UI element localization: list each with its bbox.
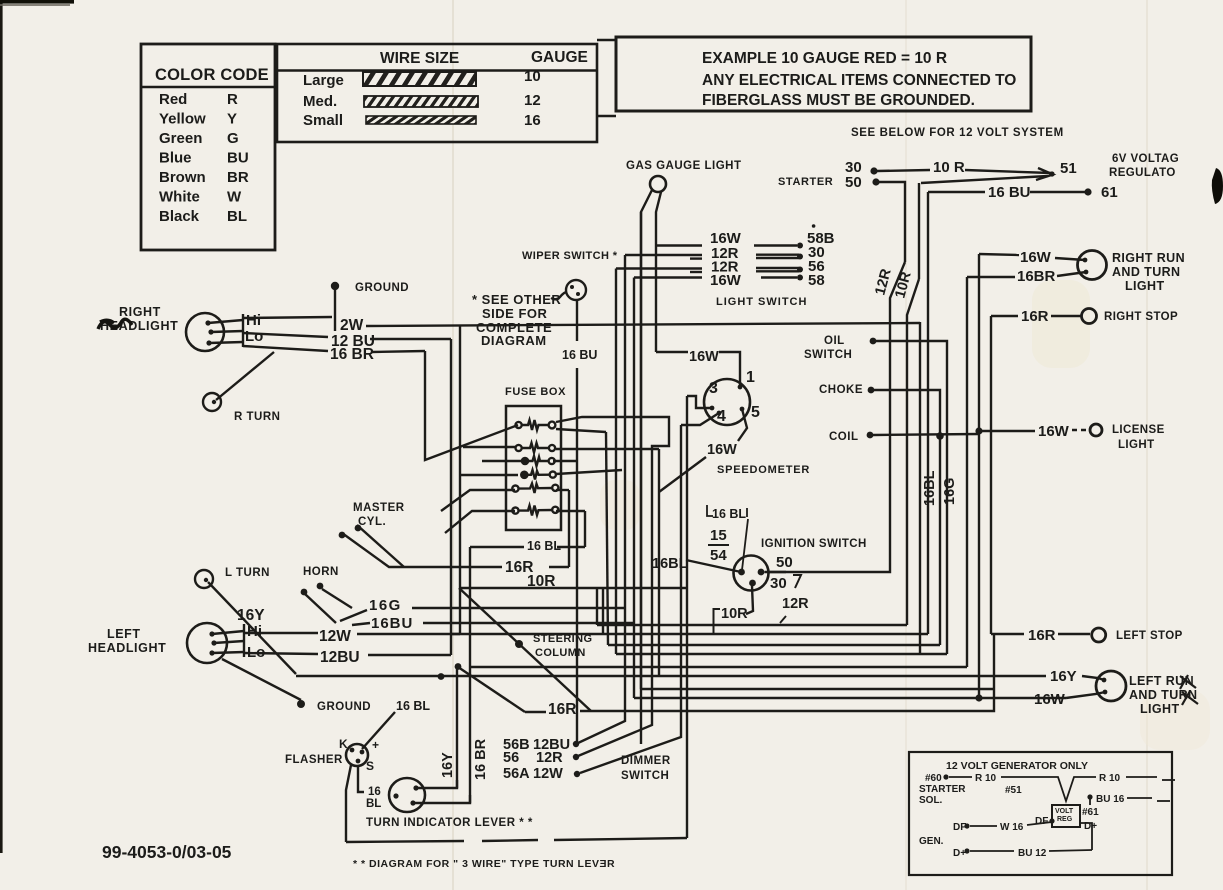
svg-text:BR: BR: [227, 169, 249, 186]
svg-text:SIDE FOR: SIDE FOR: [482, 306, 548, 321]
svg-text:10: 10: [524, 68, 541, 85]
h8 16W run: [634, 697, 1066, 699]
wire 12W right headlight run: [243, 317, 332, 318]
svg-text:OIL: OIL: [824, 335, 845, 347]
wire 16R right stop to v991: [991, 315, 1018, 317]
16Y vertical to turn lever: [456, 667, 458, 789]
svg-text:LIGHT SWITCH: LIGHT SWITCH: [716, 296, 807, 308]
svg-text:SWITCH: SWITCH: [804, 349, 852, 361]
hi lo bracket left: [243, 624, 245, 657]
fuse 5: [512, 484, 558, 494]
svg-text:16R: 16R: [1021, 308, 1049, 325]
svg-text:16W: 16W: [707, 442, 737, 458]
r turn pin dot: [212, 400, 216, 404]
wire 12W drop to left area: [459, 325, 461, 634]
16BL label tick: [742, 519, 748, 570]
svg-text:16 BU: 16 BU: [562, 348, 597, 362]
fuse 1: [516, 420, 556, 430]
svg-text:RIGHT RUN: RIGHT RUN: [1112, 251, 1185, 265]
scrawl on RUN: [1180, 675, 1196, 689]
vertical v681: [580, 425, 681, 773]
scan edge left line: [0, 0, 3, 853]
light switch row4 wire: [634, 276, 702, 278]
svg-text:FLASHER: FLASHER: [285, 754, 343, 766]
51 dot: [1049, 171, 1054, 176]
svg-text:50: 50: [776, 554, 793, 571]
svg-text:HEADLIGHT: HEADLIGHT: [88, 641, 166, 655]
svg-text:12BU: 12BU: [320, 649, 360, 666]
v967 16BR chain: [966, 277, 968, 667]
svg-text:AND TURN: AND TURN: [1112, 265, 1180, 279]
svg-text:16W: 16W: [1038, 423, 1070, 440]
wire fuse3 right stub: [553, 460, 577, 462]
svg-text:SOL.: SOL.: [919, 795, 943, 806]
d+ wire from volt reg down: [1080, 823, 1092, 850]
wire lh pin3 to Lo: [212, 652, 244, 653]
wire size small bar: [366, 116, 476, 124]
svg-text:12W: 12W: [319, 628, 351, 645]
svg-text:K: K: [339, 737, 348, 751]
svg-text:16W: 16W: [689, 349, 719, 365]
wire pin1 to Hi: [208, 320, 243, 323]
v920 12W chain: [919, 322, 921, 654]
ground2 dot: [297, 700, 305, 708]
svg-text:CHOKE: CHOKE: [819, 384, 863, 396]
svg-text:COLUMN: COLUMN: [535, 647, 586, 659]
svg-text:16W: 16W: [710, 272, 742, 289]
svg-text:L TURN: L TURN: [225, 567, 270, 579]
v928: [927, 192, 929, 634]
l turn pin dot: [204, 578, 208, 582]
svg-text:12R: 12R: [782, 596, 809, 612]
wire 16BR right headlight run: [243, 346, 328, 351]
horn wire 1: [305, 594, 336, 623]
left run pins: [1102, 678, 1107, 683]
turn lever pin dots: [413, 785, 418, 790]
faint stains: [1032, 280, 1090, 368]
wire size header underline: [277, 69, 597, 71]
vertical v585 fuse6 chain: [584, 511, 586, 547]
svg-text:16Y: 16Y: [440, 752, 456, 778]
wire 12BU right headlight run: [243, 333, 328, 337]
fuse 4: [521, 470, 556, 480]
svg-text:R 10: R 10: [975, 773, 997, 784]
scan blob right edge: [1212, 168, 1223, 204]
svg-text:HORN: HORN: [303, 566, 339, 578]
horn dot 1: [301, 589, 308, 596]
light switch row1 dot: [797, 243, 803, 249]
svg-text:W 16: W 16: [1000, 822, 1024, 833]
svg-text:16G: 16G: [942, 478, 958, 505]
svg-text:DIMMER: DIMMER: [621, 755, 671, 767]
svg-text:6V VOLTAG: 6V VOLTAG: [1112, 153, 1179, 165]
v905 12R upper: [879, 182, 905, 262]
master cyl wire 2 extension: [357, 525, 404, 567]
svg-text:GROUND: GROUND: [317, 701, 371, 713]
svg-text:16G: 16G: [369, 597, 402, 614]
bu16 dot: [1087, 794, 1092, 799]
svg-text:RIGHT: RIGHT: [119, 305, 161, 319]
svg-text:58: 58: [808, 272, 825, 289]
ignition switch body: [734, 556, 769, 591]
svg-text:10R: 10R: [721, 606, 748, 622]
fuse box outline: [506, 406, 561, 530]
gas gauge wire 1 down: [641, 190, 652, 744]
61 dot: [1084, 188, 1091, 195]
flasher wire to bottom run: [346, 765, 351, 842]
svg-text:GEN.: GEN.: [919, 836, 944, 847]
v991 16R stop chain: [990, 316, 992, 634]
wire lightswitch row2 v634: [633, 278, 635, 699]
wire 12R to ignition 50: [767, 262, 905, 572]
svg-text:16R: 16R: [1028, 627, 1056, 644]
right headlight pin dots: [205, 320, 210, 325]
wire Lo left 12BU: [244, 653, 318, 654]
wire fuse2 left stub: [463, 446, 515, 448]
svg-text:R TURN: R TURN: [234, 411, 280, 423]
left headlight pin dots: [209, 631, 214, 636]
fuse 3: [522, 456, 555, 466]
svg-text:16 BR: 16 BR: [330, 346, 374, 363]
svg-text:Hi: Hi: [246, 312, 261, 329]
wire 10R row h588: [459, 587, 687, 589]
wire 16BR right run to v967: [967, 276, 1015, 278]
12 volt generator box: [909, 752, 1172, 875]
starter terminal 30 dot: [870, 167, 877, 174]
svg-text:BU 12: BU 12: [1018, 848, 1047, 859]
svg-text:REG: REG: [1057, 816, 1073, 823]
wire 16W to pin1: [656, 351, 688, 353]
svg-text:COIL: COIL: [829, 431, 858, 443]
svg-text:W: W: [227, 189, 242, 206]
svg-text:IGNITION SWITCH: IGNITION SWITCH: [761, 538, 867, 550]
v919 10R upper: [918, 183, 920, 279]
svg-text:D+: D+: [953, 848, 966, 859]
30 hook: [793, 575, 801, 588]
arrow lower stroke from 10R top: [921, 176, 1048, 183]
junction dot v470: [455, 663, 462, 670]
svg-text:ANY ELECTRICAL ITEMS CONNECTED: ANY ELECTRICAL ITEMS CONNECTED TO: [702, 72, 1016, 89]
wire lh pin2: [214, 641, 244, 643]
scan edge top-left bar: [0, 0, 74, 4]
svg-text:STARTER: STARTER: [919, 784, 966, 795]
gen d+ dot: [964, 848, 969, 853]
svg-text:R: R: [227, 91, 238, 108]
wire fuse4 right to v622: [556, 470, 622, 474]
svg-text:16 BU: 16 BU: [988, 184, 1031, 201]
svg-text:16 BR: 16 BR: [473, 738, 489, 780]
wire 10R chain corner into h625: [907, 279, 919, 625]
16BR vertical to turn lever: [469, 547, 471, 803]
svg-text:5: 5: [751, 404, 760, 421]
wire fuse6 left bracket: [445, 511, 515, 533]
wire 16W right run to v979: [979, 254, 1019, 255]
wire 16W left run: [1066, 692, 1105, 698]
wire 16G horn run: [340, 610, 367, 621]
junction dot license: [975, 427, 982, 434]
svg-text:Small: Small: [303, 112, 343, 129]
h634 10R run: [451, 633, 928, 635]
volt reg box: [1052, 805, 1080, 827]
svg-text:16 BL: 16 BL: [712, 507, 746, 521]
horn wire 2: [322, 589, 352, 608]
svg-text:3: 3: [709, 380, 718, 397]
wire lh pin1 to Hi: [212, 631, 244, 634]
wire 60 to R10 label: [949, 776, 972, 778]
flasher 16BL wire down: [358, 766, 364, 792]
h3 run: [608, 644, 940, 646]
svg-text:16R: 16R: [548, 701, 576, 718]
vertical v569 fuse5 chain: [568, 490, 570, 567]
wire lightswitch row4 v616: [615, 269, 617, 655]
svg-text:16BL: 16BL: [922, 470, 938, 506]
svg-text:16W: 16W: [1034, 691, 1066, 708]
svg-text:BL: BL: [227, 208, 247, 225]
svg-text:61: 61: [1101, 184, 1118, 201]
svg-text:50: 50: [845, 174, 862, 191]
svg-text:Green: Green: [159, 130, 202, 147]
wire 16BU horn run: [352, 623, 370, 625]
wire R10 right dash: [1126, 776, 1157, 778]
svg-text:Y: Y: [227, 111, 237, 128]
svg-text:VOLT: VOLT: [1055, 808, 1074, 815]
flasher body: [346, 744, 368, 766]
svg-text:+: +: [372, 738, 379, 752]
wire lh body to ground2: [222, 659, 301, 700]
wiper 16BU wire down: [576, 300, 578, 341]
svg-text:DIAGRAM: DIAGRAM: [481, 333, 547, 348]
svg-text:SEE BELOW FOR 12 VOLT SYSTEM: SEE BELOW FOR 12 VOLT SYSTEM: [851, 127, 1064, 139]
wire 16W right run: [1055, 258, 1085, 260]
svg-text:LIGHT: LIGHT: [1118, 439, 1155, 451]
svg-text:16: 16: [368, 786, 381, 798]
turn lever wire top pin to 16Y vertical: [416, 780, 457, 788]
svg-text:4: 4: [717, 408, 726, 425]
svg-text:* SEE OTHER: * SEE OTHER: [472, 292, 561, 307]
svg-text:LIGHT: LIGHT: [1125, 279, 1165, 293]
wire 16 BL fuse row: [470, 546, 524, 548]
gas gauge light lamp: [650, 176, 666, 192]
wire flasher K to 16BL label: [362, 712, 395, 749]
wire Hi left 12W: [244, 632, 318, 634]
wire fuse6 right stub: [556, 510, 585, 512]
svg-text:Blue: Blue: [159, 150, 192, 167]
svg-text:LEFT STOP: LEFT STOP: [1116, 630, 1183, 642]
svg-text:White: White: [159, 189, 200, 206]
svg-text:Yellow: Yellow: [159, 111, 206, 128]
vertical v603: [602, 588, 604, 634]
gen d+ wire: [970, 850, 1014, 852]
ground stem: [334, 289, 336, 331]
svg-text:S: S: [366, 759, 374, 773]
wire 12BU drop: [450, 339, 452, 655]
svg-text:BU: BU: [227, 150, 249, 167]
svg-text:16: 16: [524, 112, 541, 129]
ignition pin dots: [738, 569, 745, 576]
wire choke run: [874, 390, 940, 645]
wire fuse2 right to v668: [556, 448, 659, 450]
speedometer pin dots: [738, 385, 743, 390]
svg-text:RIGHT STOP: RIGHT STOP: [1104, 311, 1178, 323]
dimmer row dots: [573, 741, 579, 747]
choke dot: [868, 387, 875, 394]
svg-text:2W: 2W: [340, 317, 364, 334]
steering diagonal: [459, 588, 591, 711]
connector wire to example box bottom: [597, 115, 616, 117]
gas gauge wire 2 down: [656, 192, 661, 352]
svg-text:Brown: Brown: [159, 169, 206, 186]
right run and turn light: [1078, 251, 1107, 280]
svg-text:FUSE BOX: FUSE BOX: [505, 386, 566, 398]
master cyl dot 1: [339, 532, 346, 539]
svg-text:Hi: Hi: [247, 623, 262, 640]
svg-text:Large: Large: [303, 72, 344, 89]
svg-text:10 R: 10 R: [933, 159, 965, 176]
svg-text:16 BL: 16 BL: [396, 699, 430, 713]
dot above 58B: [812, 224, 816, 228]
junction dot v459: [438, 673, 445, 680]
svg-text:GROUND: GROUND: [355, 282, 409, 294]
steering column dot: [515, 640, 523, 648]
color code box: [141, 44, 275, 250]
r turn lamp: [203, 393, 221, 411]
svg-text:16BR: 16BR: [1017, 268, 1056, 285]
wire coil run: [873, 434, 979, 435]
wire 16BR drop to fuse: [425, 351, 518, 460]
junction dot h8: [975, 694, 982, 701]
wire 16Y left run: [1082, 676, 1104, 680]
svg-text:G: G: [227, 130, 239, 147]
wire R10 with V dip: [1001, 777, 1096, 801]
svg-text:TURN INDICATOR LEVER * *: TURN INDICATOR LEVER * *: [366, 817, 533, 829]
coil dot: [867, 432, 874, 439]
ground dot top: [331, 282, 339, 290]
light switch row2 dot: [797, 254, 803, 260]
svg-text:MASTER: MASTER: [353, 502, 405, 514]
light switch row3 dot: [797, 267, 803, 273]
h4 run: [616, 653, 947, 655]
svg-text:DF: DF: [953, 822, 966, 833]
svg-text:SPEEDOMETER: SPEEDOMETER: [717, 464, 810, 476]
wire pin5 down to 16W: [738, 409, 747, 441]
svg-text:54: 54: [710, 547, 727, 564]
wire 30 to 51: [877, 170, 930, 171]
wire 16R left stop: [1058, 633, 1090, 635]
svg-text:GAS GAUGE LIGHT: GAS GAUGE LIGHT: [626, 160, 741, 172]
light switch row2 wire: [625, 254, 702, 256]
wire 16BU to 61: [928, 191, 985, 193]
wire fuse1 out stair: [556, 417, 669, 756]
svg-text:12: 12: [524, 92, 541, 109]
wiper squiggle: [551, 292, 567, 299]
svg-text:WIPER SWITCH *: WIPER SWITCH *: [522, 250, 618, 262]
svg-text:16BL: 16BL: [652, 556, 688, 572]
v979 16W chain: [978, 254, 980, 698]
svg-text:FIBERGLASS MUST BE GROUNDED.: FIBERGLASS MUST BE GROUNDED.: [702, 92, 975, 109]
turn indicator lever body: [389, 778, 425, 812]
16W lower tail diagonal: [659, 457, 706, 492]
light switch row3 wire: [616, 267, 702, 269]
wire oil switch run: [876, 341, 947, 654]
ignition 30 stub: [765, 571, 787, 573]
df junction dot: [1049, 818, 1054, 823]
wire l turn diagonal: [208, 582, 296, 674]
svg-text:DF: DF: [1035, 816, 1048, 827]
svg-text:Med.: Med.: [303, 93, 337, 110]
h6 horizontal to left run 16Y: [296, 675, 1046, 677]
svg-text:GAUGE: GAUGE: [531, 49, 588, 66]
bottom long wire from flasher: [346, 841, 464, 842]
svg-text:COLOR CODE: COLOR CODE: [155, 66, 269, 84]
svg-text:REGULATO: REGULATO: [1109, 167, 1176, 179]
svg-text:#51: #51: [1005, 785, 1022, 796]
wire 16BR right run: [1057, 272, 1086, 276]
df left dot: [964, 823, 969, 828]
l turn lamp: [195, 570, 213, 588]
connector wire to example box top: [597, 39, 616, 41]
master cyl dot 2: [355, 525, 362, 532]
svg-text:16 BL: 16 BL: [527, 539, 561, 553]
svg-text:#60: #60: [925, 773, 942, 784]
color code underline: [141, 86, 275, 88]
wiper pin dots: [570, 285, 574, 289]
wire left stop label link: [991, 633, 1024, 635]
svg-text:30: 30: [770, 575, 787, 592]
wire fuse1 out slope to v608: [556, 429, 606, 432]
wire size table box: [277, 44, 597, 142]
starter terminal 50 dot: [872, 178, 879, 185]
51 arrow tip: [1036, 168, 1053, 180]
right stop light: [1082, 309, 1097, 324]
wire fuse4 left stub: [460, 474, 518, 476]
wire fuse5 right stub: [556, 489, 569, 491]
vertical v687 long: [686, 396, 688, 838]
scribble over headlight: [98, 319, 132, 329]
left run and turn light: [1096, 671, 1126, 701]
svg-text:CYL.: CYL.: [358, 516, 386, 528]
svg-text:R 10: R 10: [1099, 773, 1121, 784]
fuse 2: [516, 443, 556, 453]
turn lever wire low pin to 16BR vertical: [413, 795, 470, 803]
svg-text:12W: 12W: [533, 766, 563, 782]
right headlight lamp: [186, 313, 224, 351]
10R bracket: [714, 609, 721, 633]
svg-text:STARTER: STARTER: [778, 176, 833, 188]
svg-text:56: 56: [503, 750, 519, 766]
h1 run: [597, 624, 907, 626]
light switch row1 wire: [656, 244, 702, 246]
svg-text:12 VOLT GENERATOR ONLY: 12 VOLT GENERATOR ONLY: [946, 760, 1088, 772]
svg-text:15: 15: [710, 527, 727, 544]
svg-text:Red: Red: [159, 91, 187, 108]
wire gas1 vertical v641: [640, 212, 642, 689]
svg-text:16Y: 16Y: [237, 607, 265, 624]
example note box: [616, 37, 1031, 111]
svg-text:16W: 16W: [1020, 249, 1052, 266]
wire pin4 stair: [681, 413, 719, 425]
left stop light: [1092, 628, 1106, 642]
oil switch dot: [870, 338, 877, 345]
svg-text:Black: Black: [159, 208, 200, 225]
svg-text:51: 51: [1060, 160, 1077, 177]
flasher pin dots: [350, 748, 355, 753]
license light: [1090, 424, 1102, 436]
svg-text:#61: #61: [1082, 807, 1099, 818]
vertical v608: [606, 432, 608, 645]
fold crease light line: [452, 0, 454, 890]
svg-text:99-4053-0/03-05: 99-4053-0/03-05: [102, 842, 232, 862]
svg-text:BL: BL: [366, 798, 381, 810]
